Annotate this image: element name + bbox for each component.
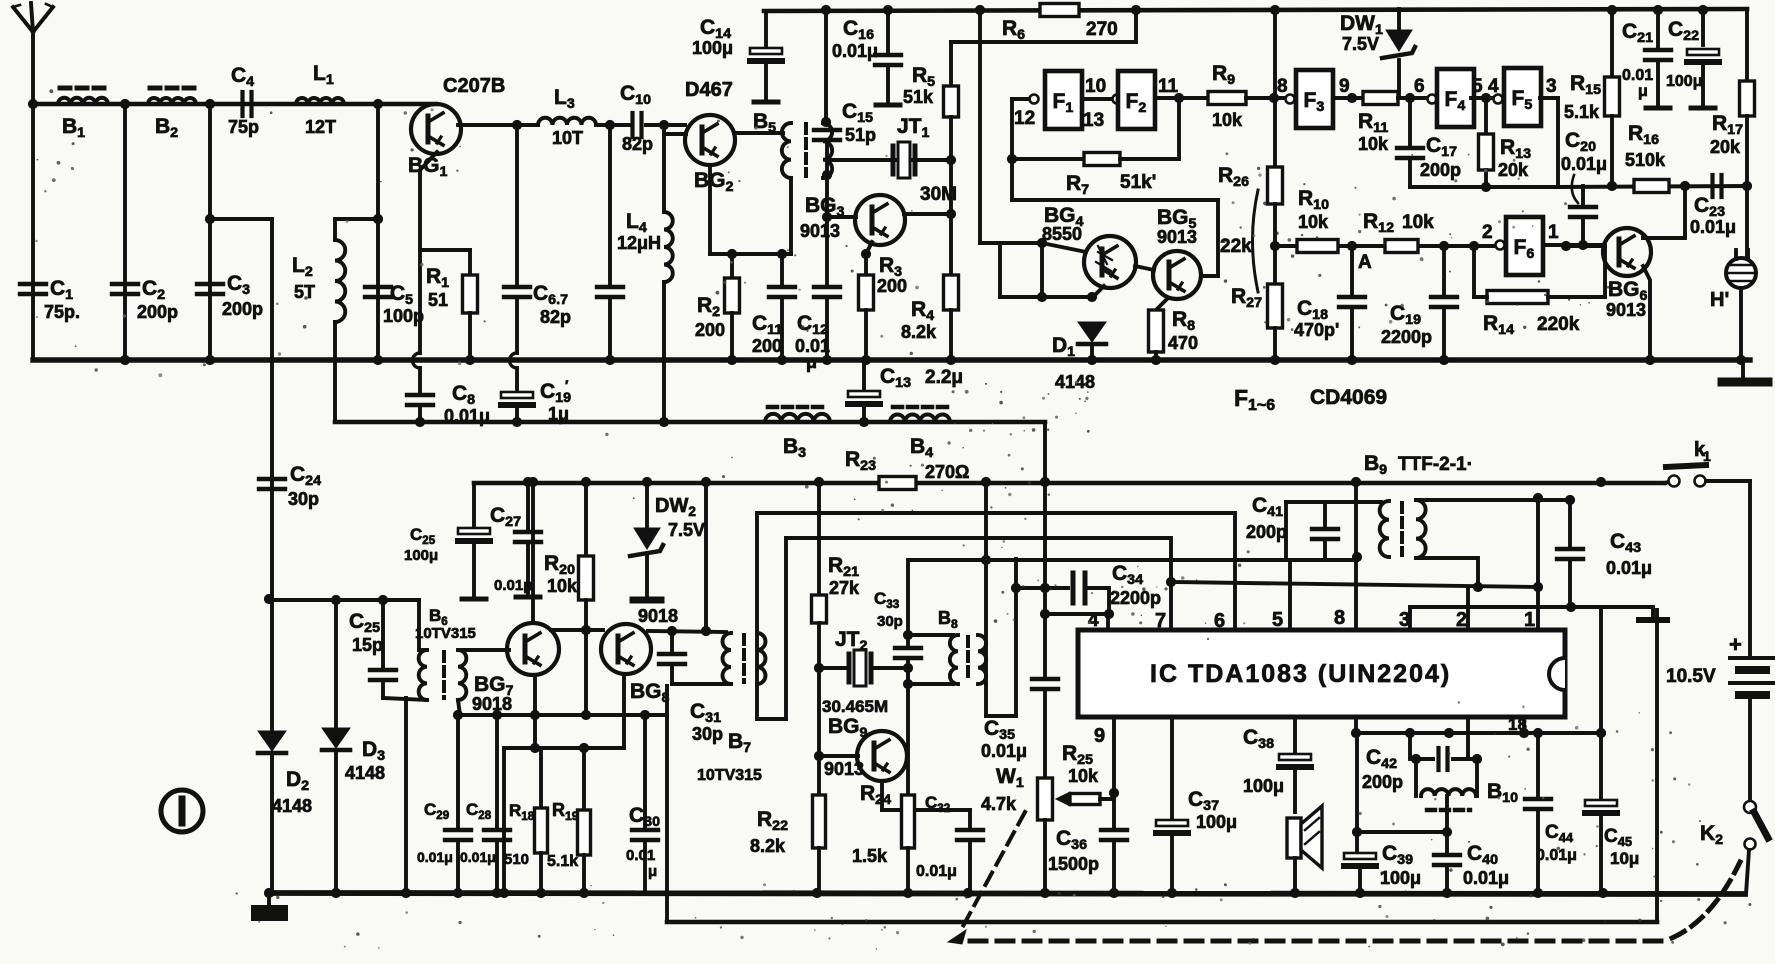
wire C45 riser: [1599, 607, 1603, 733]
svg-text:0.01μ: 0.01μ: [1561, 154, 1607, 174]
volume pot dashed link: [962, 812, 1025, 928]
IC top pin 3: [1408, 607, 1412, 630]
svg-text:100μ: 100μ: [1196, 812, 1237, 832]
svg-text:51k': 51k': [1120, 172, 1156, 193]
svg-text:51: 51: [428, 290, 448, 310]
transistor BG1 C207B: [411, 104, 461, 154]
switch K1: [1669, 476, 1680, 487]
svg-text:200p: 200p: [1362, 772, 1403, 792]
svg-text:470: 470: [1168, 333, 1198, 353]
svg-text:10k: 10k: [1358, 134, 1389, 154]
diode D1 4148: [1078, 322, 1106, 342]
svg-text:8.2k: 8.2k: [901, 322, 937, 342]
antenna: [31, 30, 35, 104]
svg-text:27k: 27k: [829, 578, 860, 598]
section2 bottom rail: [269, 893, 1745, 894]
inverter F4: [1428, 95, 1437, 104]
inverter F2: [1118, 71, 1155, 129]
resistor R20: [584, 483, 588, 556]
svg-text:7.5V: 7.5V: [668, 520, 705, 540]
capacitor C44: [1536, 733, 1540, 797]
svg-text:51p: 51p: [845, 125, 876, 145]
diode D3 4148: [334, 599, 338, 728]
capacitor C13: [862, 360, 866, 390]
wire B8 right to bus C: [984, 483, 988, 684]
resistor R9: [1208, 92, 1246, 105]
capacitor C6: [515, 125, 519, 287]
circled 1 mark: [161, 790, 203, 832]
svg-text:9: 9: [1339, 76, 1350, 97]
bias wire y715: [460, 713, 667, 717]
svg-text:1μ: 1μ: [548, 404, 569, 424]
top section ground rail: [33, 357, 1750, 362]
svg-text:9: 9: [1094, 725, 1105, 747]
switch K2: [1748, 698, 1752, 800]
capacitor C43: [1568, 500, 1572, 547]
inductor B2: [148, 98, 196, 104]
resistor R7 parallel: [1010, 99, 1014, 200]
capacitor C10: [630, 113, 634, 137]
capacitor C19b 1u: [515, 297, 519, 353]
capacitor C30: [643, 715, 647, 828]
bias wire row A: [1275, 244, 1496, 248]
svg-text:200: 200: [695, 320, 725, 340]
ground near C43: [1651, 607, 1655, 617]
inverter F1: [1030, 95, 1039, 104]
svg-text:2200p: 2200p: [1110, 588, 1161, 608]
svg-text:10k: 10k: [1402, 212, 1434, 233]
inductor B1: [58, 98, 108, 104]
capacitor C5: [376, 104, 380, 360]
svg-text:100μ: 100μ: [692, 38, 733, 58]
wire y607 ground row: [1410, 605, 1653, 609]
svg-text:200p: 200p: [222, 299, 263, 319]
svg-text:IC TDA1083 (UIN2204): IC TDA1083 (UIN2204): [1150, 660, 1451, 688]
svg-text:+: +: [1729, 632, 1742, 657]
resistor R23 on rail: [879, 477, 916, 490]
svg-text:8.2k: 8.2k: [750, 836, 786, 856]
svg-text:22k: 22k: [1220, 236, 1252, 257]
svg-text:75p: 75p: [228, 117, 259, 137]
capacitor C11: [780, 254, 784, 287]
resistor R27: [1273, 246, 1277, 284]
IC TDA1083 box: [1078, 630, 1565, 717]
capacitor C23: [1710, 175, 1714, 197]
transformer B7: [723, 633, 732, 684]
wire to B6 tank: [269, 598, 419, 602]
capacitor C2: [123, 104, 127, 360]
capacitor C35: [1043, 614, 1047, 677]
R6 feedback loop wire: [951, 10, 1136, 42]
svg-text:9018: 9018: [638, 606, 678, 626]
svg-text:10μ: 10μ: [1610, 849, 1639, 868]
IC top pin 2: [1466, 587, 1470, 630]
resistor R25: [1070, 794, 1100, 805]
svg-text:10T: 10T: [552, 128, 583, 148]
svg-text:270Ω: 270Ω: [925, 462, 969, 482]
resistor R11: [1363, 92, 1398, 105]
svg-text:TTF-2-1·: TTF-2-1·: [1398, 454, 1473, 475]
svg-text:1500p: 1500p: [1048, 854, 1099, 874]
top power rail: [764, 9, 1747, 11]
zener DW2 7.5V: [645, 483, 649, 528]
wire BG1 collector row: [458, 123, 538, 127]
svg-text:9013: 9013: [1606, 300, 1646, 320]
capacitor C24: [259, 477, 285, 481]
svg-text:1: 1: [1524, 609, 1535, 631]
wire R26 chain from rail: [1273, 10, 1277, 167]
svg-text:5.1k: 5.1k: [1564, 102, 1600, 122]
wire BG7 to BG8: [551, 628, 603, 632]
bias wire y748: [504, 746, 624, 750]
transistor BG4 8550: [1042, 243, 1086, 252]
resistor R8: [1156, 298, 1168, 310]
transistor BG6: [1603, 228, 1651, 276]
svg-text:100μ: 100μ: [1243, 776, 1284, 796]
resistor R13: [1484, 98, 1488, 134]
transistor BG3: [827, 215, 856, 219]
svg-text:1: 1: [1548, 222, 1559, 243]
IC pin9 line: [1112, 717, 1116, 828]
resistor R22: [817, 756, 821, 795]
svg-text:μ: μ: [1638, 83, 1648, 100]
svg-text:12: 12: [1014, 108, 1035, 129]
capacitor C37: [1170, 717, 1174, 820]
capacitor C27: [526, 483, 530, 530]
resistor R10: [1297, 240, 1338, 253]
svg-text:1~6: 1~6: [1248, 397, 1275, 414]
inductor L4: [662, 125, 666, 212]
svg-text:270: 270: [1086, 19, 1118, 40]
capacitor C19 2200p: [1442, 246, 1446, 296]
svg-text:0.01μ: 0.01μ: [981, 741, 1027, 761]
svg-text:7: 7: [1155, 610, 1166, 632]
IC top pin 4: [1106, 614, 1110, 630]
wire loop B8 bottom: [984, 684, 988, 716]
capacitor C25 tank cap: [381, 600, 385, 668]
capacitor C15: [824, 11, 828, 122]
svg-text:4: 4: [1088, 610, 1099, 631]
wire R22 chain: [817, 668, 821, 756]
capacitor C34: [1016, 586, 1068, 590]
svg-text:82p: 82p: [540, 307, 571, 327]
svg-text:10k: 10k: [547, 576, 578, 596]
capacitor C45: [1599, 733, 1603, 800]
svg-text:9013: 9013: [1157, 227, 1197, 247]
wire y614 C35 node: [1045, 612, 1109, 616]
svg-text:0.01μ: 0.01μ: [1463, 868, 1509, 888]
svg-text:220k: 220k: [1537, 314, 1580, 335]
svg-text:9013: 9013: [800, 221, 840, 241]
crystal JT1: [831, 158, 951, 162]
capacitor C36: [1101, 828, 1127, 832]
svg-text:10k: 10k: [1068, 766, 1099, 786]
svg-text:0.01μ: 0.01μ: [832, 41, 878, 61]
capacitor C4: [240, 92, 244, 116]
svg-text:CD4069: CD4069: [1310, 386, 1387, 409]
transistor BG5 9013: [1135, 266, 1154, 270]
svg-text:200: 200: [877, 276, 907, 296]
svg-text:0.01μ: 0.01μ: [417, 849, 453, 865]
wire F2 out to R9: [1155, 96, 1208, 100]
svg-text:30p: 30p: [288, 489, 319, 509]
wire C39 drop: [1355, 733, 1359, 832]
potentiometer W1 4.7k: [1038, 778, 1053, 820]
svg-text:470p': 470p': [1294, 320, 1339, 340]
svg-text:μ: μ: [648, 863, 657, 880]
capacitor C12 line: [825, 175, 829, 287]
transistor BG9: [819, 754, 858, 758]
svg-text:5: 5: [1472, 76, 1483, 97]
svg-text:13: 13: [1083, 110, 1104, 131]
svg-text:10: 10: [1085, 76, 1106, 97]
transformer B5: [734, 131, 783, 135]
svg-text:510: 510: [504, 851, 529, 868]
wire BG4 base bias to D1: [998, 243, 1002, 297]
bus C y560: [908, 560, 986, 635]
inverter F6: [1496, 241, 1505, 250]
svg-text:10TV315: 10TV315: [697, 767, 762, 784]
svg-text:51k: 51k: [903, 87, 934, 107]
crystal JT2: [819, 666, 847, 670]
capacitor C26: [472, 483, 476, 528]
wire y733 row: [1356, 731, 1604, 735]
svg-text:H': H': [1710, 289, 1729, 311]
svg-text:200p: 200p: [1420, 160, 1461, 180]
svg-text:10.5V: 10.5V: [1666, 666, 1716, 687]
svg-text:12μH: 12μH: [617, 233, 661, 253]
svg-text:3: 3: [1546, 76, 1557, 97]
inverter F5: [1494, 95, 1503, 104]
svg-text:4148: 4148: [272, 796, 312, 816]
svg-text:9018: 9018: [472, 694, 512, 714]
transistor BG8: [601, 624, 651, 674]
inductor L1: [296, 98, 344, 104]
wire y832 row: [1357, 830, 1447, 834]
svg-text:20k: 20k: [1710, 137, 1741, 157]
capacitor C32: [880, 781, 884, 810]
earphone H: [1745, 186, 1749, 258]
svg-text:0.01μ: 0.01μ: [916, 863, 957, 880]
capacitor C17 loop: [1408, 98, 1412, 147]
resistor R1: [420, 248, 470, 252]
resistor R3: [866, 242, 872, 254]
svg-text:A: A: [1358, 252, 1372, 273]
second bottom line: [665, 686, 669, 922]
svg-text:510k: 510k: [1625, 150, 1666, 170]
svg-text:200: 200: [752, 336, 782, 356]
svg-text:0.01μ: 0.01μ: [1690, 217, 1736, 237]
capacitor C16: [886, 11, 890, 53]
svg-text:5.1k: 5.1k: [547, 853, 578, 870]
zener DW1 7.5V: [1397, 9, 1401, 30]
svg-text:30.465M: 30.465M: [822, 697, 888, 716]
svg-text:1.5k: 1.5k: [852, 846, 888, 866]
wire F1 F2 link: [1082, 97, 1112, 101]
bus D y585: [1171, 582, 1538, 587]
svg-text:30p: 30p: [877, 613, 903, 630]
capacitor C38: [1293, 717, 1297, 754]
resistor R26: [1268, 167, 1283, 204]
svg-text:D467: D467: [685, 79, 733, 101]
svg-text:0.01μ: 0.01μ: [1606, 558, 1652, 578]
wire VCC drop to BG4: [978, 12, 982, 243]
wire pin2 down: [1466, 717, 1470, 733]
wire BG5 collector loop: [1012, 198, 1218, 202]
inverter F3: [1286, 95, 1295, 104]
svg-text:0.01: 0.01: [626, 847, 655, 864]
capacitor C28: [495, 715, 499, 828]
svg-text:10TV315: 10TV315: [415, 625, 476, 642]
resistor R4: [946, 209, 956, 219]
IC top pin 1: [1536, 498, 1540, 630]
svg-text:8: 8: [1277, 76, 1288, 97]
wire B7 right loop: [755, 513, 759, 719]
svg-text:10k: 10k: [1212, 110, 1243, 130]
transistor BG7: [531, 483, 535, 623]
resistor R15: [1610, 10, 1614, 77]
svg-text:82p: 82p: [622, 134, 653, 154]
svg-text:F: F: [1234, 385, 1248, 411]
svg-text:200p: 200p: [1246, 522, 1287, 542]
svg-text:8550: 8550: [1042, 224, 1082, 244]
node A C18: [1350, 246, 1354, 296]
capacitor C22: [1701, 10, 1705, 45]
capacitor C29: [456, 715, 460, 828]
wire B9 secondary: [1416, 498, 1570, 502]
svg-text:100μ: 100μ: [1666, 73, 1702, 90]
resistor R12: [1385, 240, 1418, 253]
capacitor C21: [1656, 10, 1660, 47]
capacitor C40: [1445, 832, 1449, 854]
transistor BG2 D467: [662, 125, 666, 134]
svg-text:11: 11: [1158, 76, 1179, 97]
inductor L3: [538, 118, 596, 125]
svg-text:75p.: 75p.: [44, 302, 80, 322]
resistor R24: [906, 668, 910, 756]
svg-text:5: 5: [1272, 609, 1283, 631]
svg-text:0.01μ: 0.01μ: [494, 577, 532, 594]
inductor L2: [335, 217, 378, 221]
transformer B10: [1414, 759, 1418, 796]
B10 coupling C42: [1408, 733, 1412, 759]
svg-text:30p: 30p: [692, 724, 723, 744]
svg-text:0.01: 0.01: [1622, 67, 1653, 84]
svg-text:2200p: 2200p: [1381, 327, 1432, 347]
svg-text:0.01μ: 0.01μ: [1536, 847, 1577, 864]
capacitor C1: [31, 104, 35, 360]
wire top-left input rail: [33, 102, 436, 107]
capacitor C33: [903, 630, 913, 640]
svg-text:0.01μ: 0.01μ: [460, 849, 496, 865]
svg-text:2.2μ: 2.2μ: [925, 367, 963, 388]
svg-text:100μ: 100μ: [404, 547, 438, 564]
capacitor C31: [670, 631, 674, 652]
capacitor C8 on emitter line with hop: [420, 152, 437, 353]
resistor R14 loop: [1472, 246, 1476, 297]
svg-text:9013: 9013: [824, 759, 864, 779]
ground top section right: [1741, 360, 1745, 376]
capacitor C7: [608, 125, 612, 287]
resistor R6 on rail: [1040, 4, 1079, 17]
resistor R21: [817, 483, 821, 595]
resistor R2: [730, 254, 734, 278]
svg-text:3: 3: [1399, 609, 1410, 631]
svg-text:1: 1: [1703, 448, 1711, 464]
section2 supply rail: [474, 481, 879, 486]
svg-text:C207B: C207B: [443, 75, 505, 97]
transformer B8: [908, 633, 953, 637]
battery 10.5V: [1748, 481, 1752, 655]
diode D2 4148: [270, 599, 274, 731]
wire rail2 drop to C34: [1043, 422, 1047, 614]
feedback wire row y187: [1558, 186, 1747, 187]
svg-text:8: 8: [1334, 607, 1345, 629]
IC bottom pin 18: [1354, 717, 1358, 733]
emitter BG2 to R2 C11 node: [708, 165, 712, 254]
svg-text:100p: 100p: [383, 306, 424, 326]
svg-text:15p: 15p: [352, 635, 383, 655]
transformer B6: [417, 600, 421, 650]
inductor B4: [890, 415, 950, 422]
capacitor C14: [764, 11, 768, 48]
resistor R17: [1745, 9, 1749, 81]
svg-text:2: 2: [1482, 222, 1493, 243]
svg-text:12T: 12T: [305, 117, 336, 137]
svg-text:20k: 20k: [1498, 160, 1529, 180]
svg-text:6: 6: [1414, 76, 1425, 97]
svg-text:200p: 200p: [137, 302, 178, 322]
svg-text:4148: 4148: [345, 763, 385, 783]
wire node C3 to C24 line: [210, 217, 272, 221]
capacitor C3: [208, 104, 212, 360]
resistor R19: [582, 748, 586, 810]
wire C24 line down: [270, 477, 274, 599]
svg-text:7.5V: 7.5V: [1342, 34, 1379, 54]
wire BG8 collector tank row: [648, 631, 726, 632]
resistor R16: [1634, 180, 1669, 193]
bus A y513 to pin6: [757, 513, 1235, 630]
svg-text:100μ: 100μ: [1380, 868, 1421, 888]
resistor R5: [949, 42, 953, 86]
capacitor C20: [1581, 186, 1585, 206]
svg-text:6: 6: [1214, 610, 1225, 632]
resistor R18: [539, 748, 543, 808]
bus B y538 to pin7: [786, 538, 1171, 630]
inductor B3: [765, 414, 830, 422]
svg-text:4.7k: 4.7k: [981, 794, 1017, 814]
speaker: [1287, 818, 1301, 858]
svg-text:10k: 10k: [1298, 212, 1329, 232]
capacitor C39: [1355, 832, 1359, 852]
svg-text:2: 2: [1456, 609, 1467, 631]
second ground rail y422: [335, 420, 1045, 425]
